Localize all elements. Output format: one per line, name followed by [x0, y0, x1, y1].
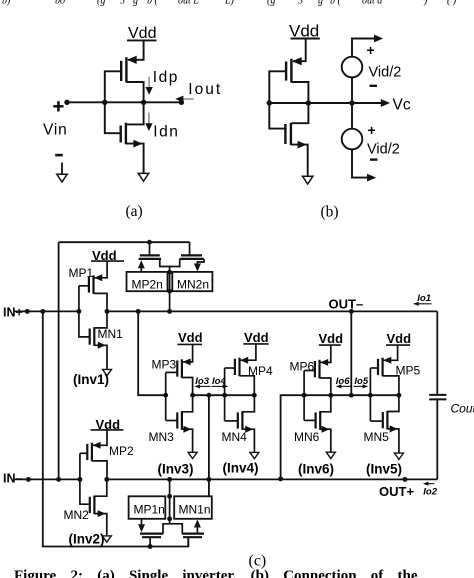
nmos MN2 source lead with arrow [94, 514, 106, 536]
capacitor Cout plates [429, 394, 446, 396]
svg-text:5: 5 [298, 0, 303, 7]
svg-text:(a): (a) [126, 203, 143, 220]
node IN- to left vertical wire [56, 477, 61, 482]
nmos MN4 channel bar [241, 411, 243, 430]
nmos (b) gate bar [284, 124, 286, 144]
wire top voltage source to arrow (b) [352, 39, 380, 57]
nmos MN6 channel bar [319, 411, 321, 430]
svg-text:IN+: IN+ [3, 305, 23, 319]
current arrow Io4 [212, 385, 228, 387]
pmos MP2 drain lead [92, 461, 107, 480]
svg-text:L): L) [224, 0, 235, 7]
node OUT+ to bottom pair center [167, 477, 172, 482]
Inv4 upper gate lead [225, 367, 231, 369]
nmos MN5 drain lead [387, 395, 399, 411]
label - (a input) [55, 154, 63, 157]
Inv3 lower gate lead [166, 420, 177, 422]
nmos MN5 channel bar [386, 411, 388, 430]
nmos MN4 drain lead [242, 395, 254, 412]
MP2n right lead [160, 259, 170, 272]
nmos MN4 source lead with arrow [242, 429, 254, 452]
svg-text:+: + [367, 42, 375, 58]
node sources junction (b) [349, 100, 354, 105]
nmos MN3 drain lead [182, 395, 193, 412]
nmos MN4 gate bar [237, 412, 239, 428]
Inv3 gate vertical line [165, 372, 167, 420]
OUT- bus wire [107, 310, 437, 312]
Vdd rail Inv4 [243, 343, 268, 345]
MN1n gate bar [183, 536, 202, 538]
Vdd rail (a) [127, 39, 157, 41]
wire top circle to bus (b) [351, 77, 353, 103]
IN- input terminal dot [26, 477, 31, 482]
svg-text:(Inv5): (Inv5) [366, 461, 402, 476]
svg-text:Cout: Cout [451, 402, 474, 416]
svg-text:out L: out L [178, 0, 199, 7]
Vdd rail Inv5 [386, 344, 410, 346]
node bottom rail MP1n gate [148, 544, 153, 549]
svg-text:(g: (g [97, 0, 105, 7]
pmos (a) gate bar [120, 61, 122, 81]
MP2n channel bar [139, 258, 162, 260]
Inv6 lower gate lead [304, 419, 315, 421]
node tie line on OUT+ [206, 477, 211, 482]
node IN+ to Inv1 gate line [76, 309, 81, 314]
current arrow Io2 [425, 483, 435, 485]
IN- bus wire [13, 478, 80, 480]
svg-text:Vid/2: Vid/2 [367, 141, 400, 157]
ground arrow below Vin [61, 163, 63, 175]
node OUT- to center line down [349, 309, 354, 314]
current arrow Iout [184, 98, 194, 100]
node Inv3 gate on net [163, 393, 168, 398]
pmos MP1 gate lead [79, 285, 89, 287]
nmos MN5 ground arrow [394, 453, 403, 459]
MN2n gate stub [189, 242, 191, 255]
wire bottom circle to arrow (b) [352, 149, 373, 177]
nmos (a) source lead with arrow [126, 144, 144, 173]
pmos MP2 gate lead [80, 452, 87, 454]
node Inv1 output on OUT- bus [105, 309, 110, 314]
MP1n right lead [163, 524, 170, 534]
pmos MP6 channel bar [318, 360, 320, 379]
Vdd rail (b) [291, 38, 320, 40]
box MP2n [127, 272, 168, 291]
nmos MN6 source lead with arrow [320, 429, 331, 452]
MP1n gate bar [142, 536, 161, 538]
nmos MN1 drain lead [94, 311, 107, 328]
node OUT- to top pair center [167, 309, 172, 314]
nmos (a) gate bar [119, 126, 121, 143]
MP2n left lead with up arrow [140, 267, 142, 272]
nmos MN1 source lead with arrow [94, 345, 107, 369]
svg-text:MP2: MP2 [109, 444, 134, 458]
node Inv6 gate on net [302, 393, 307, 398]
node Inv5 output on net [396, 393, 401, 398]
svg-text:OUT–: OUT– [329, 296, 364, 311]
svg-text:MN3: MN3 [149, 430, 175, 444]
MP1n left lead with down arrow [141, 519, 143, 526]
nmos (b) source lead with arrow [291, 145, 308, 176]
nmos MN1 gate bar [89, 329, 91, 345]
MP2n gate bar [140, 254, 160, 256]
svg-text:Vdd: Vdd [387, 331, 412, 346]
svg-text:MN1n: MN1n [179, 503, 211, 517]
node gate bus junction (b) [267, 100, 272, 105]
pmos MP6 gate lead [304, 370, 315, 372]
pmos MP1 drain lead [94, 293, 108, 311]
wire end dot (a) [179, 100, 184, 105]
Inv6 gate vertical line [303, 371, 305, 421]
box MP1n [129, 496, 166, 519]
wire Vdd to pmos source (b) [293, 39, 306, 62]
nmos MN6 ground arrow [326, 452, 335, 458]
Inv5 upper gate lead [370, 367, 373, 369]
node IN+ to crossover line [40, 309, 45, 314]
pmos MP5 drain lead [383, 376, 399, 395]
pmos (b) drain lead [291, 82, 308, 103]
nmos MN5 gate bar [382, 412, 384, 428]
nmos MN6 gate bar [315, 412, 317, 428]
svg-text:out a: out a [362, 0, 382, 7]
node top pair box bottom [167, 289, 172, 294]
vertical wire IN+ down to bottom rail [43, 311, 189, 546]
Inv1 gate line upper [78, 286, 80, 312]
svg-text:5: 5 [120, 0, 125, 7]
svg-text:Io5: Io5 [354, 376, 368, 387]
Vdd rail Inv6 [319, 344, 341, 346]
net wire Inv6-Inv5 with corner down to OUT+ [281, 395, 399, 479]
Vdd rail Inv3 [178, 343, 203, 345]
nmos (b) channel bar [290, 123, 292, 145]
net wire Inv3-Inv4 outputs [193, 394, 255, 396]
MN1n channel bar [182, 532, 204, 534]
Vdd rail Inv1 [91, 260, 124, 262]
nmos (a) gate lead wire [105, 102, 121, 133]
MP2n gate stub [149, 242, 151, 255]
pmos MP6 source lead from Vdd with arrow [321, 345, 331, 362]
node Inv4 gate on net [222, 393, 227, 398]
input terminal dot (a) [64, 100, 69, 105]
node IN- to Inv2 gate line [77, 477, 82, 482]
input wire (a) [67, 101, 144, 103]
current arrow Io5 [354, 385, 368, 387]
IN+ bus wire [13, 310, 79, 312]
svg-text:MN2: MN2 [64, 508, 90, 522]
current arrow Io3 [196, 385, 211, 387]
pmos MP5 gate bar [377, 359, 379, 375]
pmos MP3 gate lead [166, 371, 178, 373]
node bottom pair box bottom [167, 516, 172, 521]
svg-text:Iout: Iout [188, 81, 222, 98]
svg-text:(Inv4): (Inv4) [223, 460, 259, 475]
pmos MP1 gate bar [88, 276, 90, 292]
svg-text:(Inv3): (Inv3) [158, 461, 194, 476]
current arrow Io6 [337, 385, 351, 387]
Inv4 lower gate lead [225, 420, 238, 422]
pmos MP1 source lead from Vdd with arrow [95, 261, 108, 278]
center line OUT+ to bottom pair boxes [169, 479, 171, 496]
pmos MP2 gate bar [86, 444, 88, 460]
pmos MP4 gate lead [230, 367, 235, 369]
MP1n gate lead [149, 537, 151, 546]
wire bus to bottom circle (b) [351, 103, 353, 129]
svg-text:MN2n: MN2n [177, 278, 209, 292]
svg-text:Io6: Io6 [336, 376, 350, 387]
node Inv3 output on net [190, 393, 195, 398]
Inv2 gate line upper [79, 453, 81, 479]
svg-text:(b): (b) [321, 204, 339, 221]
node pmos drain junction (b) [306, 100, 311, 105]
MN2n right lead with down arrow [197, 259, 204, 265]
svg-text:bo: bo [55, 0, 65, 7]
nmos (a) channel bar [125, 123, 127, 145]
MN2n channel bar [180, 258, 204, 260]
MN1n right lead with up arrow [196, 526, 198, 534]
pmos MP4 channel bar [238, 358, 240, 377]
svg-text:): ) [423, 0, 428, 7]
node Inv6 output on net [328, 393, 333, 398]
pmos MP5 source lead from Vdd with arrow [384, 345, 398, 360]
pmos (a) source arrow [127, 56, 137, 64]
top rail wire to MP2n MN2n gates [59, 241, 190, 243]
svg-text:Vc: Vc [393, 96, 411, 113]
svg-text:( ): ( ) [447, 0, 457, 7]
svg-text:g: g [133, 0, 138, 7]
label - top Vid/2 [370, 85, 378, 87]
svg-text:(Inv2): (Inv2) [69, 531, 105, 546]
pmos (a) drain lead [126, 82, 143, 102]
svg-text:OUT+: OUT+ [379, 484, 414, 499]
current arrow Idn [148, 113, 150, 124]
node bottom pair box top [167, 494, 172, 499]
output bus wire (b) [269, 102, 381, 104]
Inv3 input line from OUT- [138, 311, 166, 395]
tie line net to OUT+ and MN1n box [208, 395, 210, 496]
label - bottom Vid/2 [370, 158, 378, 160]
node Inv5 gate on net [368, 393, 373, 398]
MN1n gate lead [187, 537, 189, 546]
wire Vdd to pmos source (a) [128, 40, 144, 59]
Inv5 lower gate lead [370, 420, 382, 422]
svg-text:Io2: Io2 [423, 487, 437, 498]
svg-text:b): b) [2, 0, 11, 7]
voltage source Vid/2 bottom circle [342, 129, 363, 150]
svg-text:Vid/2: Vid/2 [369, 65, 402, 81]
svg-text:Vdd: Vdd [244, 330, 269, 345]
svg-text:(Inv1): (Inv1) [73, 372, 109, 387]
pmos MP3 source lead from Vdd with arrow [183, 344, 193, 362]
svg-text:MN1: MN1 [98, 327, 124, 341]
node OUT+ stray junction [403, 477, 408, 482]
box MN1n [174, 496, 212, 519]
MN2n left lead [170, 259, 180, 267]
nmos MN2 drain lead [94, 479, 106, 496]
svg-text:MP2n: MP2n [132, 278, 163, 292]
nmos MN3 gate bar [176, 412, 178, 428]
svg-text:MP1n: MP1n [134, 503, 165, 517]
svg-text:Figure 2: (a) Single inverter.: Figure 2: (a) Single inverter. (b) Conne… [14, 568, 418, 578]
pmos MP3 channel bar [181, 359, 183, 378]
svg-text:MN6: MN6 [294, 430, 320, 444]
pmos MP2 source lead from Vdd with arrow [93, 430, 107, 445]
nmos MN4 ground arrow [250, 452, 259, 458]
svg-text:Idp: Idp [153, 69, 179, 86]
nmos MN1 channel bar [93, 327, 95, 346]
nmos MN2 gate bar [89, 497, 91, 513]
ground (a) below nmos [138, 173, 148, 181]
pmos MP4 gate bar [234, 359, 236, 375]
center line OUT- down to net C [350, 311, 352, 395]
Inv2 gate line lower [80, 479, 91, 504]
MP1n channel bar [140, 532, 163, 534]
pmos MP4 drain lead [240, 376, 255, 395]
node Inv4 output on net [252, 393, 257, 398]
svg-text:Idn: Idn [153, 124, 179, 141]
current arrow Idp [148, 77, 150, 89]
nmos (b) drain lead [292, 103, 309, 123]
nmos MN3 source lead with arrow [182, 429, 193, 452]
node output junction (a) [141, 100, 146, 105]
svg-text:(c): (c) [249, 553, 267, 570]
MN2n gate bar [181, 254, 202, 256]
node OUT- to Inv3 input line [136, 309, 141, 314]
pmos MP5 channel bar [382, 358, 384, 377]
node center line on net C [349, 393, 354, 398]
right wire Cout down to OUT+ corner [436, 399, 438, 479]
pmos (b) source arrow [292, 57, 302, 65]
OUT+ bus wire [107, 478, 438, 480]
nmos (a) drain lead [127, 102, 144, 124]
svg-text:Vdd: Vdd [178, 330, 203, 345]
pmos MP3 gate bar [176, 361, 178, 377]
Inv5 gate vertical line [369, 368, 371, 421]
svg-text:+: + [368, 122, 376, 138]
svg-text:Io1: Io1 [417, 293, 431, 304]
pmos MP1 channel bar [92, 275, 94, 294]
Vdd rail Inv2 [91, 429, 124, 431]
label + (a input) [53, 105, 63, 108]
svg-text:MN5: MN5 [364, 430, 390, 444]
node gate junction (a) [102, 100, 107, 105]
pmos MP4 source lead from Vdd with arrow [241, 344, 256, 360]
pmos MP3 drain lead [182, 378, 193, 396]
svg-text:(g: (g [267, 0, 275, 7]
nmos MN1 ground arrow [103, 369, 112, 375]
node top rail MP2n gate [147, 240, 152, 245]
box MN2n [172, 272, 212, 291]
arrow to Vc [381, 99, 390, 107]
nmos MN5 source lead with arrow [387, 429, 399, 453]
nmos (b) gate lead wire [269, 103, 286, 129]
pmos (a) gate lead wire [105, 71, 121, 102]
center line top pair to OUT- bus [169, 272, 171, 311]
svg-text:Vin: Vin [43, 121, 68, 138]
svg-text:b (: b ( [147, 0, 159, 7]
nmos MN2 channel bar [93, 496, 95, 515]
center stem bottom pair [169, 496, 171, 524]
svg-text:b (: b ( [330, 0, 342, 7]
right wire OUT- corner down to Cout [436, 311, 438, 394]
Inv1 gate line lower [79, 311, 90, 337]
current arrow Io1 [414, 303, 432, 305]
svg-text:Vdd: Vdd [319, 331, 344, 346]
output wire to Iout (a) [144, 101, 182, 103]
MN1n left lead [170, 524, 183, 534]
node top pair inner leads [167, 270, 172, 275]
nmos MN3 ground arrow [188, 452, 197, 458]
pmos (b) gate lead wire [269, 71, 286, 103]
pmos (b) channel bar [290, 59, 292, 83]
svg-text:g: g [318, 0, 323, 7]
nmos MN3 channel bar [181, 411, 183, 430]
pmos MP6 drain lead [320, 378, 331, 395]
IN+ input terminal dot [25, 309, 30, 314]
pmos (a) channel bar [125, 57, 127, 82]
node net to OUT+ tie line [206, 393, 211, 398]
svg-text:MN4: MN4 [222, 430, 248, 444]
svg-text:(Inv6): (Inv6) [298, 461, 334, 476]
pmos MP6 gate bar [314, 361, 316, 377]
nmos MN2 ground arrow [102, 536, 111, 542]
pmos MP5 gate lead [374, 367, 379, 369]
node Inv2 output on OUT+ [104, 477, 109, 482]
node net C to OUT+ junction [278, 476, 283, 481]
left vertical wire top-rail to IN- bus [58, 242, 60, 479]
pmos (b) gate bar [285, 62, 287, 81]
ground (b) below nmos [303, 176, 313, 184]
Inv4 gate vertical line [224, 368, 226, 421]
pmos MP2 channel bar [91, 443, 93, 462]
svg-text:MP3: MP3 [152, 357, 177, 371]
voltage source Vid/2 top circle [342, 57, 363, 78]
nmos MN6 drain lead [320, 395, 331, 412]
svg-text:Io3: Io3 [195, 376, 209, 387]
